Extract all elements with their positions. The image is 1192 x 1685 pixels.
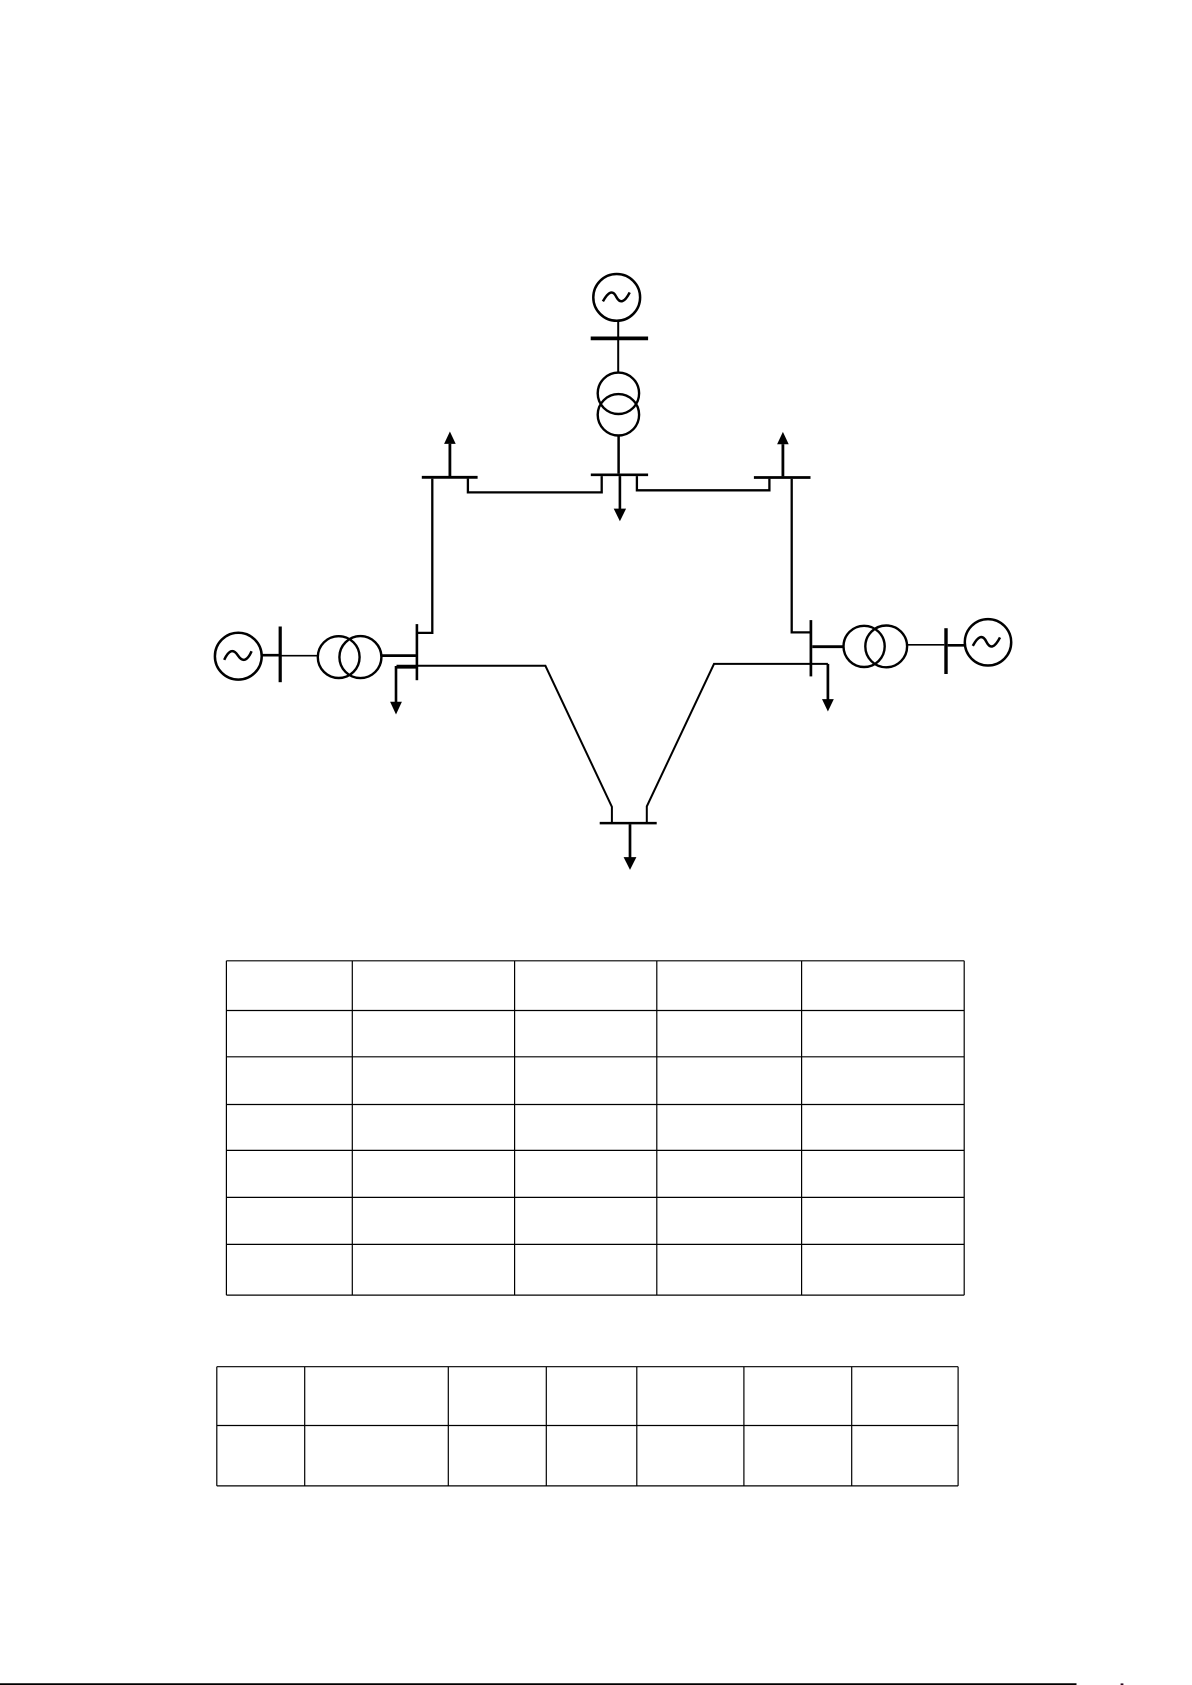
load arrow at bus 5 bbox=[390, 667, 417, 714]
wire G2 to bus 8 bbox=[261, 654, 279, 657]
wire T3 to bus 9 bbox=[907, 644, 944, 646]
wire bus 9 to G3 bbox=[948, 644, 966, 647]
transformer T2 (two overlapping circles) bbox=[318, 636, 382, 678]
wire bus 6 to bus 7 (right feeder with slant) bbox=[647, 664, 828, 823]
wire bus 6 to transformer T3 bbox=[812, 645, 844, 648]
bus 2 (top center bus bar) bbox=[591, 473, 648, 476]
load arrow at bus 6 bbox=[822, 664, 834, 712]
generation arrow up at bus 4 bbox=[777, 432, 789, 476]
footer period mark bbox=[1121, 1683, 1124, 1685]
wire T2 to bus 5 bbox=[382, 654, 416, 657]
footer rule bbox=[0, 1683, 1077, 1685]
bus 7 (bottom center bus bar) bbox=[600, 822, 657, 825]
wire bus 4 to bus 6 bbox=[792, 479, 811, 633]
transformer T1 (two overlapping circles) bbox=[598, 373, 639, 436]
wire T1 to bus 2 bbox=[617, 436, 620, 474]
wire bus 5 to bus 7 (left feeder with slant) bbox=[397, 666, 612, 823]
wire G1 to transformer T1 through bus 1 bbox=[617, 321, 619, 373]
bus 1 (generator step-up bus bar) bbox=[591, 336, 648, 340]
transformer T3 (two overlapping circles) bbox=[844, 626, 908, 668]
load arrow at bus 2 bbox=[614, 476, 626, 521]
wire bus 2 to bus 4 (jog right) bbox=[637, 476, 770, 490]
bus 6 (right middle vertical bus bar) bbox=[810, 620, 813, 676]
wire bus 8 to transformer T2 bbox=[282, 655, 319, 657]
bus 3 (top left bus bar) bbox=[422, 476, 478, 479]
table 2 (2 rows x 7 columns, empty) bbox=[217, 1367, 958, 1486]
bus 4 (top right bus bar) bbox=[754, 476, 811, 479]
bus 8 (left generator vertical bus bar) bbox=[279, 627, 282, 683]
wire bus 2 to bus 3 (jog left) bbox=[468, 476, 602, 492]
load arrow at bus 7 bbox=[624, 824, 637, 870]
generation arrow up at bus 3 bbox=[444, 432, 456, 477]
wire bus 3 to bus 5 bbox=[417, 479, 432, 633]
generator G2 (left generator circle with sine) bbox=[215, 633, 262, 680]
generator G1 (top slack generator circle with sine) bbox=[593, 274, 640, 321]
generator G3 (right generator circle with sine) bbox=[965, 619, 1011, 665]
bus 9 (right generator vertical bus bar) bbox=[944, 628, 947, 674]
table 1 (7 rows x 5 columns, empty) bbox=[226, 961, 964, 1295]
bus 5 (left middle vertical bus bar) bbox=[416, 624, 419, 680]
